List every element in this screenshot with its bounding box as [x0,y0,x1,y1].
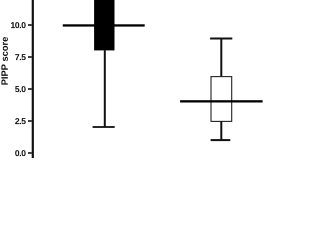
tick label 10.0 [11,22,26,28]
tick label 0.0 [15,150,25,156]
y-axis line [32,0,34,158]
box 2 (open white box) [211,77,232,122]
tick 7.5 [28,56,32,58]
tick label 5.0 [15,86,26,92]
box 1 median line at 10.0 [63,24,145,26]
tick label 7.5 [15,54,26,60]
box 2 lower whisker cap [211,139,231,141]
tick label 2.5 [15,118,26,124]
box 1 (filled black box, top cropped) [94,0,114,50]
box 2 upper whisker cap [210,38,232,40]
box 1 lower whisker line [104,50,106,127]
box 2 lower whisker line [220,121,222,140]
tick 5.0 [28,88,32,90]
tick 0.0 [28,152,32,154]
box 2 upper whisker line [220,40,222,77]
tick 10.0 [28,24,32,26]
box 1 lower whisker cap [93,126,115,128]
box 2 median line at 4 [180,100,263,102]
tick 2.5 [28,120,32,122]
y-axis title PIPP score [1,37,7,85]
